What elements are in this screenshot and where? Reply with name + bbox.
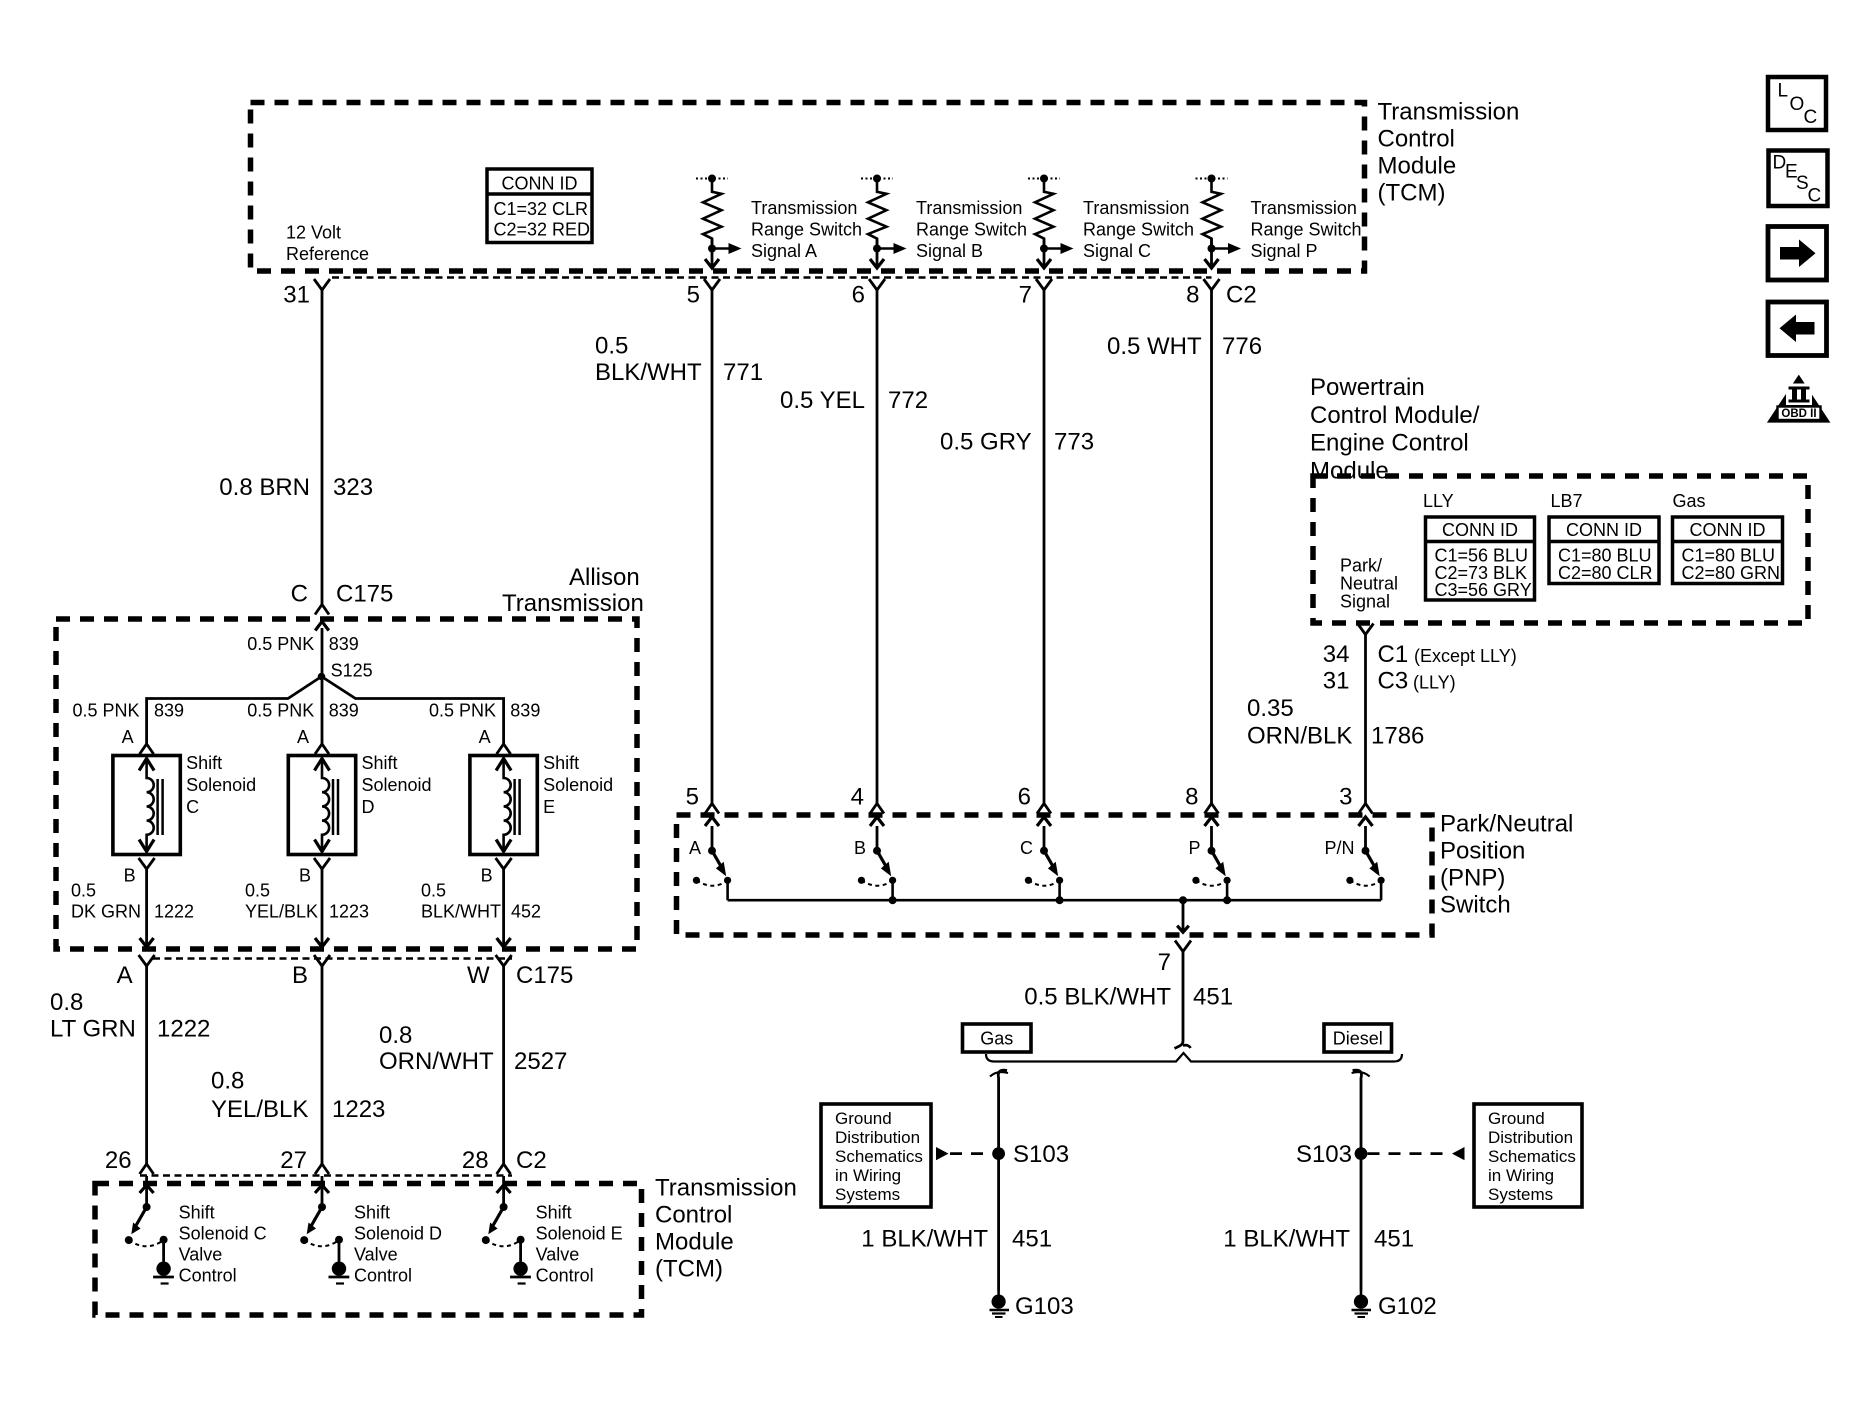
- junction on PNP bus at contact C: [1056, 896, 1064, 904]
- svg-text:Signal P: Signal P: [1251, 241, 1318, 261]
- resistor: Transmission Range Switch Signal B (TCM internal): [861, 175, 907, 269]
- off-page arrow to S103 (left): [936, 1147, 991, 1160]
- svg-text:Valve: Valve: [536, 1245, 580, 1265]
- label: Transmission Range Switch Signal C: [1083, 198, 1194, 261]
- svg-text:Park/: Park/: [1340, 556, 1382, 576]
- label: 0.35 ORN/BLK 1786: [1247, 695, 1424, 750]
- icon: LOC button: [1768, 77, 1826, 130]
- svg-text:LB7: LB7: [1551, 491, 1583, 511]
- wire: circuit 772 0.5 YEL from TCM pin 6 to PNP pin 4: [876, 290, 879, 804]
- label: 0.8 BRN 323: [219, 474, 373, 501]
- svg-text:772: 772: [888, 387, 928, 414]
- wire: circuit 773 0.5 GRY from TCM pin 7 to PNP pin 6: [1043, 290, 1046, 804]
- wire: circuit 451 0.5 BLK/WHT from PNP pin 7 to splice bracket: [1175, 952, 1191, 1049]
- switch contact C of PNP switch: [1025, 817, 1063, 900]
- label: Shift Solenoid C Valve Control: [179, 1203, 267, 1286]
- svg-text:Range Switch: Range Switch: [751, 220, 862, 240]
- splice S103 (Gas branch): [992, 1141, 1069, 1168]
- connector line C1/C2 at TCM (thin dashed): [332, 276, 1212, 279]
- wire: S125 branch to Shift Solenoid C pin A: [147, 677, 322, 745]
- table: LB7 CONN ID: [1549, 517, 1659, 584]
- label: LLY: [1423, 491, 1454, 511]
- module box: Allison Transmission: [56, 619, 637, 949]
- switch contact P of PNP switch: [1192, 817, 1230, 900]
- junction on PNP bus at contact B: [889, 896, 897, 904]
- svg-text:C2=80 CLR: C2=80 CLR: [1558, 563, 1653, 583]
- svg-text:Neutral: Neutral: [1340, 574, 1398, 594]
- connector pin 8 at PNP switch (male end): [1185, 784, 1218, 814]
- svg-text:Distribution: Distribution: [1488, 1128, 1573, 1147]
- label: PNP contact B: [854, 838, 866, 858]
- label: Shift Solenoid E Valve Control: [536, 1203, 623, 1286]
- svg-text:LT GRN: LT GRN: [50, 1016, 136, 1043]
- label: 0.5 GRY 773: [940, 429, 1094, 456]
- svg-text:CONN ID: CONN ID: [502, 174, 578, 194]
- svg-text:Powertrain: Powertrain: [1310, 374, 1425, 401]
- solenoid coil: Shift Solenoid C: [113, 756, 180, 855]
- svg-text:YEL/BLK: YEL/BLK: [245, 902, 318, 922]
- label: Park/Neutral Signal: [1340, 556, 1398, 612]
- svg-text:LLY: LLY: [1423, 491, 1454, 511]
- svg-text:G102: G102: [1378, 1293, 1437, 1320]
- svg-text:Control: Control: [655, 1202, 732, 1229]
- svg-text:in Wiring: in Wiring: [835, 1166, 901, 1185]
- connector pin 6 at PNP switch (male end): [1018, 784, 1051, 814]
- label: Park/Neutral Position (PNP) Switch: [1440, 811, 1573, 919]
- svg-text:Range Switch: Range Switch: [1251, 220, 1362, 240]
- svg-text:776: 776: [1222, 333, 1262, 360]
- svg-text:B: B: [481, 866, 493, 886]
- svg-text:P: P: [1188, 838, 1200, 858]
- svg-text:Shift: Shift: [179, 1203, 215, 1223]
- svg-text:Solenoid E: Solenoid E: [536, 1224, 623, 1244]
- label: 0.8 LT GRN 1222: [50, 989, 210, 1043]
- module box: Transmission Control Module (TCM) bottom: [95, 1184, 642, 1316]
- svg-text:Gas: Gas: [980, 1029, 1013, 1049]
- svg-text:Control: Control: [1378, 126, 1455, 153]
- switch contact B of PNP switch: [858, 817, 896, 900]
- label: 0.5 WHT 776: [1107, 333, 1262, 360]
- svg-text:323: 323: [333, 474, 373, 501]
- table: Gas CONN ID: [1673, 517, 1783, 584]
- icon: back arrow button: [1768, 302, 1827, 356]
- svg-text:0.5: 0.5: [595, 333, 628, 360]
- svg-text:C2=32 RED: C2=32 RED: [494, 220, 591, 240]
- label: 1 BLK/WHT 451 (Gas branch): [861, 1226, 1052, 1253]
- connector pin 5 at PNP switch (male end): [686, 784, 719, 814]
- svg-text:773: 773: [1054, 429, 1094, 456]
- svg-text:C1: C1: [1378, 641, 1409, 668]
- svg-text:B: B: [124, 866, 136, 886]
- connector pin 4 at PNP switch (male end): [851, 784, 884, 814]
- svg-text:Module: Module: [1310, 457, 1389, 484]
- svg-text:Signal A: Signal A: [751, 241, 817, 261]
- svg-text:Valve: Valve: [354, 1245, 398, 1265]
- svg-text:(PNP): (PNP): [1440, 865, 1505, 892]
- wire: S125 branch to Shift Solenoid E pin A: [322, 677, 504, 745]
- connector pin 7 at TCM (female Y): [1019, 279, 1052, 309]
- svg-text:839: 839: [329, 701, 359, 721]
- svg-text:Transmission: Transmission: [1251, 198, 1357, 218]
- svg-text:839: 839: [510, 701, 540, 721]
- label: 1 BLK/WHT 451 (Diesel branch): [1223, 1226, 1414, 1253]
- resistor: Transmission Range Switch Signal A (TCM internal): [696, 175, 742, 269]
- label: Shift Solenoid D: [362, 753, 432, 817]
- label: 0.5 DK GRN 1222: [71, 881, 194, 922]
- svg-text:C: C: [1808, 186, 1822, 207]
- svg-text:0.5 BLK/WHT: 0.5 BLK/WHT: [1024, 984, 1171, 1011]
- svg-text:Control: Control: [536, 1266, 594, 1286]
- svg-text:0.35: 0.35: [1247, 695, 1294, 722]
- svg-text:451: 451: [1193, 984, 1233, 1011]
- table: LLY CONN ID: [1426, 517, 1535, 600]
- svg-text:7: 7: [1019, 282, 1032, 309]
- connector C175 pin W (female Y): [467, 955, 512, 989]
- wire: Shift Solenoid D pin B to C175: [315, 869, 329, 947]
- connector pin 5 at TCM (female Y): [687, 279, 720, 309]
- svg-text:Systems: Systems: [835, 1185, 900, 1204]
- wire: S125 branch to Shift Solenoid D pin A: [321, 677, 324, 745]
- svg-text:(TCM): (TCM): [655, 1256, 723, 1283]
- svg-text:Park/Neutral: Park/Neutral: [1440, 811, 1573, 838]
- svg-text:1223: 1223: [332, 1096, 385, 1123]
- label: PNP contact A: [689, 838, 701, 858]
- label: 12 Volt Reference: [286, 223, 369, 265]
- svg-text:Transmission: Transmission: [1378, 99, 1520, 126]
- svg-text:P/N: P/N: [1324, 838, 1354, 858]
- svg-text:451: 451: [1374, 1226, 1414, 1253]
- svg-text:A: A: [689, 838, 701, 858]
- connector line C175 (thin dashed): [153, 957, 512, 960]
- label: LB7: [1551, 491, 1583, 511]
- label: Transmission Range Switch Signal B: [916, 198, 1027, 261]
- reference box: Ground Distribution Schematics in Wiring Systems (left): [821, 1104, 931, 1207]
- icon: OBD II triangle: [1767, 375, 1831, 423]
- svg-text:Signal: Signal: [1340, 592, 1390, 612]
- svg-text:451: 451: [1012, 1226, 1052, 1253]
- svg-text:B: B: [854, 838, 866, 858]
- svg-text:12 Volt: 12 Volt: [286, 223, 341, 243]
- svg-text:in Wiring: in Wiring: [1488, 1166, 1554, 1185]
- svg-text:0.8: 0.8: [50, 989, 83, 1016]
- svg-text:Solenoid: Solenoid: [362, 775, 432, 795]
- svg-text:(TCM): (TCM): [1378, 180, 1446, 207]
- svg-text:Position: Position: [1440, 838, 1525, 865]
- off-page arrow to S103 (right): [1368, 1147, 1465, 1160]
- label: Transmission Range Switch Signal A: [751, 198, 862, 261]
- svg-text:452: 452: [511, 902, 541, 922]
- svg-text:5: 5: [687, 282, 700, 309]
- icon: DESC button: [1769, 151, 1828, 207]
- ground G103: [990, 1290, 1074, 1320]
- connector pin 27 at TCM (male end): [280, 1147, 329, 1174]
- svg-text:8: 8: [1186, 282, 1199, 309]
- svg-text:Solenoid: Solenoid: [543, 775, 613, 795]
- svg-text:Transmission: Transmission: [751, 198, 857, 218]
- svg-text:W: W: [467, 962, 490, 989]
- wire: circuit 776 0.5 WHT from TCM pin 8 to PNP pin 8: [1210, 290, 1213, 804]
- svg-text:E: E: [543, 797, 555, 817]
- svg-text:Signal C: Signal C: [1083, 241, 1151, 261]
- svg-text:Transmission: Transmission: [1083, 198, 1189, 218]
- label: PNP contact P: [1188, 838, 1200, 858]
- svg-text:0.5 WHT: 0.5 WHT: [1107, 333, 1202, 360]
- svg-text:Ground: Ground: [1488, 1109, 1545, 1128]
- connector C175 pin B (female Y): [292, 955, 330, 989]
- label: 31 C3 (LLY): [1323, 668, 1456, 695]
- label: C175 at pin W: [516, 962, 573, 989]
- wire: Shift Solenoid C pin B to C175: [140, 869, 154, 947]
- svg-text:1222: 1222: [154, 902, 194, 922]
- connector C175 pin A (female Y): [117, 955, 155, 989]
- label: C2 connector id at pin 8: [1226, 282, 1257, 309]
- connector C175 pin C (male end above Allison box): [315, 605, 329, 615]
- label: Shift Solenoid E: [543, 753, 613, 817]
- svg-text:6: 6: [1018, 784, 1031, 811]
- svg-text:771: 771: [723, 359, 763, 386]
- svg-text:4: 4: [851, 784, 864, 811]
- svg-text:3: 3: [1339, 784, 1352, 811]
- svg-text:0.5 PNK: 0.5 PNK: [429, 701, 496, 721]
- label: 0.5 PNK 839 (solenoid D branch): [247, 701, 358, 721]
- svg-text:Transmission: Transmission: [502, 590, 644, 617]
- pin B of Shift Solenoid E: [481, 858, 512, 886]
- svg-text:0.5 PNK: 0.5 PNK: [247, 701, 314, 721]
- svg-text:S125: S125: [331, 661, 373, 681]
- svg-text:Schematics: Schematics: [1488, 1147, 1576, 1166]
- svg-text:A: A: [297, 727, 309, 747]
- connector pin 3 at PNP switch (male end): [1339, 784, 1372, 814]
- svg-text:S103: S103: [1013, 1141, 1069, 1168]
- svg-text:Transmission: Transmission: [916, 198, 1022, 218]
- label: 0.8 YEL/BLK 1223: [211, 1068, 385, 1124]
- label: Transmission Control Module (TCM) top-right: [1378, 99, 1520, 207]
- svg-text:C175: C175: [336, 581, 393, 608]
- module box: Powertrain Control Module / Engine Control Module: [1313, 476, 1808, 623]
- svg-text:7: 7: [1158, 949, 1171, 976]
- svg-text:A: A: [479, 727, 491, 747]
- connector pin 26 at TCM (male end): [105, 1147, 154, 1174]
- svg-text:L: L: [1778, 81, 1789, 102]
- svg-text:G103: G103: [1015, 1293, 1074, 1320]
- svg-text:C2: C2: [1226, 282, 1257, 309]
- svg-text:Range Switch: Range Switch: [1083, 220, 1194, 240]
- svg-text:B: B: [299, 866, 311, 886]
- label: 0.5 PNK 839 (solenoid E branch): [429, 701, 540, 721]
- svg-text:Range Switch: Range Switch: [916, 220, 1027, 240]
- svg-text:Diesel: Diesel: [1333, 1029, 1383, 1049]
- pin A of Shift Solenoid C: [122, 727, 154, 754]
- svg-text:Shift: Shift: [536, 1203, 572, 1223]
- svg-text:28: 28: [462, 1147, 489, 1174]
- connector pin 34/31 at PCM (female Y): [1358, 624, 1374, 635]
- pin B of Shift Solenoid D: [299, 858, 330, 886]
- label: Powertrain Control Module / Engine Control Module: [1310, 374, 1480, 484]
- label: Allison Transmission: [502, 564, 644, 617]
- table: CONN ID C1=32 CLR C2=32 RED: [487, 169, 592, 243]
- svg-text:0.5 PNK: 0.5 PNK: [72, 701, 139, 721]
- label box: Gas: [963, 1024, 1032, 1052]
- wire: circuit 771 0.5 BLK/WHT from TCM pin 5 to PNP pin 5: [711, 290, 714, 804]
- svg-text:ORN/BLK: ORN/BLK: [1247, 723, 1352, 750]
- module box: Park/Neutral Position (PNP) Switch: [677, 815, 1433, 935]
- label: 0.5 BLK/WHT 451: [1024, 984, 1233, 1011]
- svg-text:D: D: [362, 797, 375, 817]
- wire: PNP bus to pin 7: [1177, 900, 1189, 932]
- svg-text:Distribution: Distribution: [835, 1128, 920, 1147]
- pin A of Shift Solenoid E: [479, 727, 511, 754]
- svg-text:839: 839: [329, 634, 359, 654]
- connector pin 28 at TCM (male end): [462, 1147, 511, 1174]
- label: Shift Solenoid D Valve Control: [354, 1203, 442, 1286]
- svg-text:Shift: Shift: [362, 753, 398, 773]
- wire: Shift Solenoid E pin B to C175: [497, 869, 511, 947]
- svg-text:Engine Control: Engine Control: [1310, 430, 1469, 457]
- wire: circuit 2527 0.8 ORN/WHT to TCM pin 28: [502, 966, 505, 1164]
- splice bracket: circuit 451 splits to Gas and Diesel: [986, 1053, 1402, 1062]
- label: 34 C1 (Except LLY): [1323, 641, 1517, 668]
- connector line C2 at bottom TCM (thin dashed): [140, 1174, 512, 1177]
- svg-text:Control Module/: Control Module/: [1310, 402, 1480, 429]
- svg-text:Shift: Shift: [354, 1203, 390, 1223]
- label: Transmission Control Module (TCM) bottom-right: [655, 1175, 797, 1283]
- wire: Diesel branch 451 down to G102: [1352, 1070, 1370, 1290]
- junction on PNP bus at contact P: [1223, 896, 1231, 904]
- svg-text:Solenoid D: Solenoid D: [354, 1224, 442, 1244]
- svg-text:27: 27: [280, 1147, 307, 1174]
- label: 0.8 ORN/WHT 2527: [379, 1022, 567, 1075]
- switch contact P/N of PNP switch: [1346, 817, 1384, 900]
- svg-text:0.8: 0.8: [379, 1022, 412, 1049]
- svg-text:Module: Module: [655, 1229, 734, 1256]
- svg-text:2527: 2527: [514, 1048, 567, 1075]
- svg-text:B: B: [292, 962, 308, 989]
- svg-text:Allison: Allison: [569, 564, 640, 591]
- switch: Shift Solenoid D Valve Control driver (TCM internal): [300, 1176, 349, 1284]
- ground G102: [1352, 1290, 1437, 1320]
- svg-text:BLK/WHT: BLK/WHT: [595, 359, 702, 386]
- svg-text:1222: 1222: [157, 1016, 210, 1043]
- label: 0.5 BLK/WHT 771: [595, 333, 763, 387]
- module box: Transmission Control Module (TCM) top: [251, 103, 1365, 272]
- svg-text:31: 31: [283, 282, 310, 309]
- svg-text:CONN ID: CONN ID: [1566, 520, 1642, 540]
- splice S125: [318, 661, 373, 681]
- junction on PNP bus at pin 7 tap: [1179, 896, 1187, 904]
- svg-text:Reference: Reference: [286, 244, 369, 264]
- svg-text:Solenoid C: Solenoid C: [179, 1224, 267, 1244]
- solenoid coil: Shift Solenoid D: [288, 756, 355, 855]
- svg-text:8: 8: [1185, 784, 1198, 811]
- svg-text:DK GRN: DK GRN: [71, 902, 141, 922]
- svg-text:CONN ID: CONN ID: [1442, 520, 1518, 540]
- label: C C175: [291, 581, 394, 608]
- svg-text:C2: C2: [516, 1147, 547, 1174]
- reference box: Ground Distribution Schematics in Wiring Systems (right): [1474, 1104, 1582, 1207]
- svg-text:BLK/WHT: BLK/WHT: [421, 902, 501, 922]
- svg-text:34: 34: [1323, 641, 1350, 668]
- svg-text:C2=80 GRN: C2=80 GRN: [1682, 563, 1781, 583]
- label: Shift Solenoid C: [186, 753, 256, 817]
- splice S103 (Diesel branch): [1296, 1141, 1367, 1168]
- svg-text:Transmission: Transmission: [655, 1175, 797, 1202]
- svg-text:C3: C3: [1378, 668, 1409, 695]
- svg-text:0.5 YEL: 0.5 YEL: [780, 387, 865, 414]
- switch: Shift Solenoid E Valve Control driver (TCM internal): [482, 1176, 531, 1284]
- svg-text:C: C: [1804, 107, 1818, 128]
- svg-text:Module: Module: [1378, 153, 1457, 180]
- label: 0.5 YEL 772: [780, 387, 928, 414]
- svg-text:Gas: Gas: [1673, 491, 1706, 511]
- svg-text:Ground: Ground: [835, 1109, 892, 1128]
- svg-text:A: A: [122, 727, 134, 747]
- wire: PNP switch common bus: [728, 899, 1382, 902]
- svg-text:CONN ID: CONN ID: [1690, 520, 1766, 540]
- svg-text:O: O: [1790, 94, 1805, 115]
- svg-text:1223: 1223: [329, 902, 369, 922]
- svg-text:0.8 BRN: 0.8 BRN: [219, 474, 310, 501]
- svg-text:5: 5: [686, 784, 699, 811]
- svg-text:0.5: 0.5: [421, 881, 446, 901]
- switch: Shift Solenoid C Valve Control driver (TCM internal): [125, 1176, 174, 1284]
- label: PNP contact P/N: [1324, 838, 1354, 858]
- svg-text:S103: S103: [1296, 1141, 1352, 1168]
- svg-text:Switch: Switch: [1440, 892, 1511, 919]
- svg-text:Signal B: Signal B: [916, 241, 983, 261]
- wire: circuit 1222 0.8 LT GRN to TCM pin 26: [145, 966, 148, 1164]
- label: C2 connector id at pin 28: [516, 1147, 547, 1174]
- svg-text:(Except LLY): (Except LLY): [1414, 646, 1517, 666]
- svg-text:C: C: [186, 797, 199, 817]
- pin B of Shift Solenoid C: [124, 858, 155, 886]
- svg-text:C3=56 GRY: C3=56 GRY: [1435, 580, 1532, 600]
- svg-text:0.5 PNK: 0.5 PNK: [247, 634, 314, 654]
- wire: circuit 323 0.8 BRN from TCM pin 31 to C175: [321, 290, 324, 605]
- label: 0.5 PNK 839 (solenoid C branch): [72, 701, 184, 721]
- svg-text:C: C: [1020, 838, 1033, 858]
- connector pin 7 at PNP (female Y): [1158, 941, 1191, 977]
- resistor: Transmission Range Switch Signal C (TCM internal): [1028, 175, 1074, 269]
- svg-text:839: 839: [154, 701, 184, 721]
- wire: circuit 1786 0.35 ORN/BLK from PCM to PNP pin 3: [1364, 635, 1367, 804]
- svg-text:Solenoid: Solenoid: [186, 775, 256, 795]
- solenoid coil: Shift Solenoid E: [470, 756, 537, 855]
- svg-text:0.5: 0.5: [245, 881, 270, 901]
- label: Transmission Range Switch Signal P: [1251, 198, 1362, 261]
- svg-text:1 BLK/WHT: 1 BLK/WHT: [861, 1226, 988, 1253]
- resistor: Transmission Range Switch Signal P (TCM internal): [1196, 175, 1242, 269]
- svg-text:Control: Control: [179, 1266, 237, 1286]
- svg-text:1786: 1786: [1371, 723, 1424, 750]
- svg-text:0.5 GRY: 0.5 GRY: [940, 429, 1032, 456]
- connector pin 31 at TCM (female Y): [283, 279, 330, 309]
- connector pin 8 at TCM (female Y): [1186, 279, 1219, 309]
- pin A of Shift Solenoid D: [297, 727, 329, 754]
- svg-text:Systems: Systems: [1488, 1185, 1553, 1204]
- connector pin 6 at TCM (female Y): [852, 279, 885, 309]
- label: 0.5 YEL/BLK 1223: [245, 881, 369, 922]
- label: 0.5 BLK/WHT 452: [421, 881, 541, 922]
- svg-text:Shift: Shift: [543, 753, 579, 773]
- svg-text:0.8: 0.8: [211, 1068, 244, 1095]
- switch contact A of PNP switch: [693, 817, 731, 900]
- svg-text:Valve: Valve: [179, 1245, 223, 1265]
- svg-text:C1=32 CLR: C1=32 CLR: [494, 199, 589, 219]
- svg-text:31: 31: [1323, 668, 1350, 695]
- wire: circuit 1223 0.8 YEL/BLK to TCM pin 27: [321, 966, 324, 1164]
- svg-text:6: 6: [852, 282, 865, 309]
- svg-text:Shift: Shift: [186, 753, 222, 773]
